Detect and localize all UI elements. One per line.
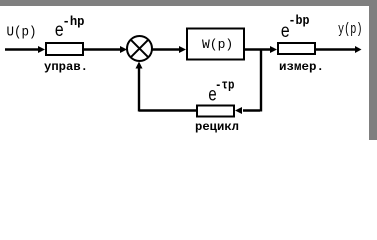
arrowhead into W(p) block	[179, 46, 186, 53]
summing junction circle	[127, 36, 152, 61]
wire: feedback bottom line left segment	[139, 109, 196, 111]
svg-text:U(p): U(p)	[7, 26, 37, 41]
svg-text:y(p): y(p)	[338, 21, 363, 38]
wire: feedback left vertical up to summing junction	[138, 66, 140, 112]
svg-text:рецикл: рецикл	[195, 120, 239, 134]
top gray window border bar	[0, 0, 377, 6]
delay block e^-hp (control channel)	[46, 43, 83, 55]
wire: measuring block to output	[316, 48, 357, 50]
summing junction X cross	[131, 40, 149, 58]
wire: feedback bottom line right segment	[243, 109, 260, 111]
svg-text:-bp: -bp	[289, 13, 310, 28]
arrowhead into control delay block	[38, 46, 45, 53]
process block W(p)	[187, 29, 244, 60]
delay block e^-bp (measuring channel)	[278, 43, 315, 54]
arrowhead into recycle block	[235, 107, 242, 114]
svg-text:-hp: -hp	[63, 14, 85, 29]
svg-text:измер.: измер.	[279, 60, 324, 74]
arrowhead into summing junction	[120, 46, 127, 53]
wire: W(p) output to measuring delay block	[245, 48, 271, 50]
svg-text:-τp: -τp	[215, 78, 235, 93]
svg-text:W(p): W(p)	[202, 37, 233, 52]
svg-text:управ.: управ.	[44, 60, 88, 74]
arrowhead into measuring delay block	[270, 46, 277, 53]
arrowhead into summing junction bottom	[136, 62, 143, 69]
right gray window border bar	[369, 0, 377, 140]
output arrowhead	[355, 46, 362, 53]
wire: summing junction to W(p) block	[153, 48, 181, 50]
wire: delay block to summing junction	[84, 48, 121, 50]
node: feedback branch junction	[260, 50, 262, 112]
delay block e^-tau p (recycle)	[197, 106, 234, 117]
wire: input line from left edge to delay block	[5, 48, 39, 50]
